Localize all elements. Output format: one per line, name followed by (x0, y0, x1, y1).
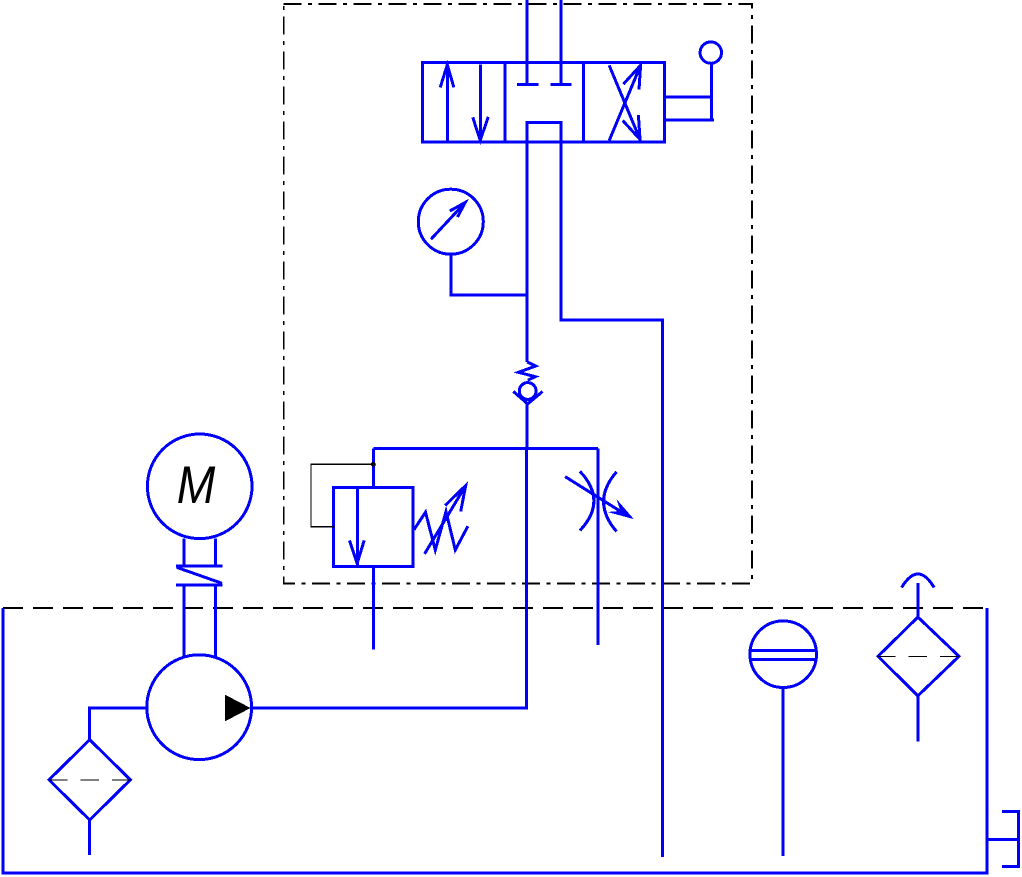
relief valve adjustment arrow (425, 486, 466, 554)
throttle valve TH1 (565, 448, 634, 645)
suction stub into tank (88, 820, 91, 855)
lever knob (700, 42, 721, 63)
motor-pump shaft with break (176, 538, 223, 656)
tank (reservoir) (3, 608, 987, 873)
breather stub into tank (916, 696, 919, 742)
pilot line (thin) (311, 464, 373, 527)
check valve CV1 (spring loaded) (513, 362, 542, 404)
gauge connection wire (451, 254, 527, 295)
wire from valve port B down, right, and long drop to tank (561, 142, 663, 857)
valve centre position: U connection (527, 123, 561, 143)
wire B (right work line above valve) (560, 0, 563, 85)
valve centre position: blocked port T left (517, 83, 538, 86)
valve centre position: blocked port T right (551, 83, 572, 86)
suction wire (89, 708, 146, 740)
valve left position: down arrow (473, 65, 489, 141)
pressure node wire (relief - check - throttle manifold) (525, 404, 528, 449)
svg-text:M: M (177, 456, 216, 515)
breather riser (916, 583, 919, 617)
pressure gauge PG (418, 189, 483, 254)
directional valve V1 body (4/3, three position) (423, 63, 665, 143)
pump outlet wire (252, 448, 527, 708)
level gauge LG (750, 621, 817, 856)
hydraulic pump P1 (147, 655, 252, 760)
lever actuator (665, 63, 715, 120)
breather vent arc (902, 574, 935, 588)
valve right position: crossed arrow 1 (609, 65, 640, 140)
valve left position: up arrow (440, 65, 454, 142)
electric motor M1 (147, 434, 252, 539)
relief valve drain wire (372, 567, 375, 650)
return port fitting (bracket) (987, 811, 1019, 866)
wire A (left work line above valve) (525, 0, 528, 85)
junction dot on pilot tap (371, 462, 376, 467)
air breather filter F2 (877, 617, 960, 696)
suction filter F1 (49, 740, 131, 820)
control-block enclosure (dash-dot border) (284, 4, 752, 584)
relief valve spring (414, 512, 468, 551)
wire from valve port A down to check valve (525, 142, 528, 362)
relief valve RV1 (334, 448, 413, 566)
valve right position: crossed arrow 2 (609, 65, 640, 139)
